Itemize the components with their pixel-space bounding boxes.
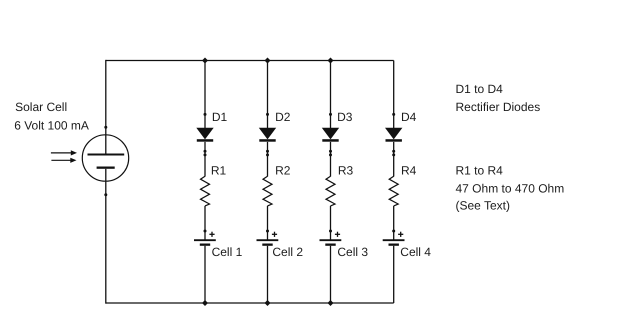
svg-text:Cell 4: Cell 4	[400, 245, 431, 259]
diode D1	[196, 128, 213, 142]
svg-text:R1: R1	[211, 164, 227, 178]
junction node branch 3 bottom	[328, 300, 334, 306]
wire branch 3 diode-to-resistor segment	[330, 142, 332, 177]
junction node branch 1 top	[202, 58, 208, 64]
pin dot D2 anode	[266, 113, 269, 116]
svg-text:D1: D1	[212, 110, 228, 124]
pin dot R2 top	[266, 153, 269, 156]
wire branch 1 resistor-to-cell segment	[204, 206, 206, 240]
junction node branch 3 top	[328, 58, 334, 64]
wire branch 3 lower segment	[330, 246, 332, 303]
resistor R2	[263, 176, 272, 206]
svg-text:Rectifier Diodes: Rectifier Diodes	[456, 100, 541, 114]
svg-text:47 Ohm to 470 Ohm: 47 Ohm to 470 Ohm	[456, 181, 565, 195]
svg-text:R1 to R4: R1 to R4	[456, 163, 504, 177]
wire branch 2 resistor-to-cell segment	[267, 206, 269, 240]
wire top rail	[106, 60, 394, 62]
svg-text:R4: R4	[401, 164, 417, 178]
pin dot Cell 2 top	[266, 230, 269, 233]
light arrow 1	[51, 150, 77, 155]
pin dot Cell 3 top	[329, 230, 332, 233]
pin dot Cell 1 top	[204, 230, 207, 233]
pin dot R3 top	[329, 153, 332, 156]
pin dot D4 cathode	[392, 150, 395, 153]
resistor R1	[201, 176, 210, 206]
pin dot D4 anode	[392, 113, 395, 116]
diode D2	[259, 128, 276, 142]
pin dot D2 cathode	[266, 150, 269, 153]
battery Cell 1	[194, 232, 216, 246]
svg-text:D1 to D4: D1 to D4	[456, 82, 504, 96]
resistor R3	[326, 176, 335, 206]
junction node branch 2 bottom	[265, 300, 271, 306]
pin dot R4 top	[392, 153, 395, 156]
pin dot Cell 4 top	[392, 230, 395, 233]
junction node branch 2 top	[265, 58, 271, 64]
svg-text:(See Text): (See Text)	[456, 199, 510, 213]
pin dot D3 anode	[329, 113, 332, 116]
svg-text:D4: D4	[401, 110, 417, 124]
battery Cell 2	[257, 232, 279, 246]
wire branch 1 upper segment	[204, 61, 206, 129]
svg-text:6 Volt 100 mA: 6 Volt 100 mA	[14, 118, 89, 132]
diode D4	[385, 128, 402, 142]
battery Cell 4	[383, 232, 405, 246]
svg-text:D2: D2	[275, 110, 291, 124]
wire branch 2 lower segment	[267, 246, 269, 303]
battery Cell 3	[320, 232, 342, 246]
wire branch 3 resistor-to-cell segment	[330, 206, 332, 240]
light arrow 2	[51, 158, 76, 163]
diode D3	[322, 128, 339, 142]
solar cell PS1	[82, 135, 128, 182]
svg-text:R2: R2	[275, 164, 291, 178]
pin dot D1 cathode	[204, 150, 207, 153]
wire branch 1 lower segment	[204, 246, 206, 303]
wire bottom rail	[106, 302, 394, 304]
pin dot solar cell bottom	[104, 193, 107, 196]
resistor R4	[389, 176, 398, 206]
junction node branch 1 bottom	[202, 300, 208, 306]
svg-text:Cell 1: Cell 1	[212, 245, 243, 259]
wire branch 3 upper segment	[330, 61, 332, 129]
wire branch 2 upper segment	[267, 61, 269, 129]
wire branch 4 upper segment	[393, 61, 395, 129]
svg-text:Cell 3: Cell 3	[337, 245, 368, 259]
pin dot solar cell top	[104, 126, 107, 129]
pin dot R1 top	[204, 153, 207, 156]
wire branch 4 resistor-to-cell segment	[393, 206, 395, 240]
pin dot D1 anode	[204, 113, 207, 116]
wire left rail upper segment	[105, 60, 107, 135]
wire branch 4 lower segment	[393, 246, 395, 303]
wire branch 2 diode-to-resistor segment	[267, 142, 269, 177]
svg-text:Cell 2: Cell 2	[272, 245, 303, 259]
svg-text:R3: R3	[338, 164, 354, 178]
wire branch 4 diode-to-resistor segment	[393, 142, 395, 177]
wire left rail lower segment	[105, 182, 107, 304]
pin dot D3 cathode	[329, 150, 332, 153]
svg-text:D3: D3	[337, 110, 353, 124]
svg-text:Solar Cell: Solar Cell	[15, 100, 67, 114]
wire branch 1 diode-to-resistor segment	[204, 142, 206, 177]
